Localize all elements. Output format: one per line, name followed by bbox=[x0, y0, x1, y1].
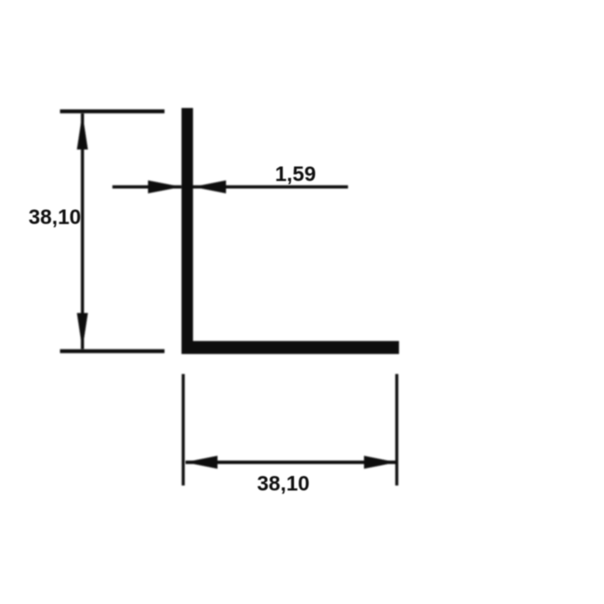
thickness leader line right bbox=[193, 185, 348, 188]
bottom-right vertical extension line bbox=[395, 374, 398, 486]
svg-text:38,10: 38,10 bbox=[29, 206, 82, 229]
arrowhead right-pointing bbox=[148, 180, 182, 193]
left dimension line 38,10 vertical bbox=[81, 114, 84, 350]
svg-text:38,10: 38,10 bbox=[257, 473, 310, 496]
arrowhead left bbox=[185, 456, 218, 469]
L-profile angle cross-section bbox=[182, 108, 400, 354]
bottom-left extension line bbox=[60, 349, 165, 353]
arrowhead down bbox=[77, 313, 88, 349]
arrowhead left-pointing bbox=[193, 180, 226, 193]
thickness leader line left bbox=[112, 185, 181, 188]
bottom-left vertical extension line bbox=[182, 374, 185, 486]
svg-text:1,59: 1,59 bbox=[275, 163, 316, 186]
top extension line bbox=[60, 109, 165, 113]
arrowhead right bbox=[364, 456, 397, 469]
bottom dimension line 38,10 horizontal bbox=[186, 461, 397, 464]
arrowhead up bbox=[77, 114, 88, 150]
